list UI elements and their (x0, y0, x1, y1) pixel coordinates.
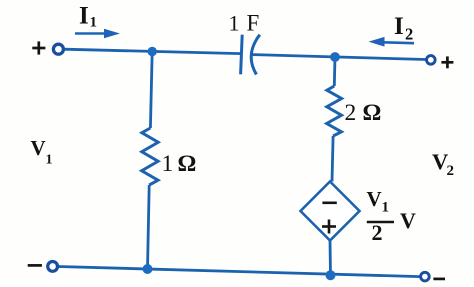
svg-text:V: V (31, 136, 46, 160)
svg-text:2: 2 (447, 163, 455, 179)
svg-text:1: 1 (382, 200, 390, 216)
svg-text:I: I (79, 3, 89, 30)
svg-text:F: F (247, 10, 260, 35)
svg-text:1: 1 (90, 15, 98, 31)
svg-text:V: V (400, 208, 416, 233)
svg-text:2: 2 (405, 25, 413, 44)
svg-text:1: 1 (162, 151, 174, 177)
svg-text:2: 2 (345, 100, 357, 126)
svg-text:1: 1 (229, 10, 240, 35)
svg-text:2: 2 (372, 220, 383, 245)
svg-text:I: I (394, 13, 404, 40)
svg-text:Ω: Ω (178, 151, 197, 177)
svg-text:Ω: Ω (363, 100, 382, 126)
svg-text:1: 1 (46, 153, 53, 168)
svg-text:V: V (367, 187, 382, 211)
